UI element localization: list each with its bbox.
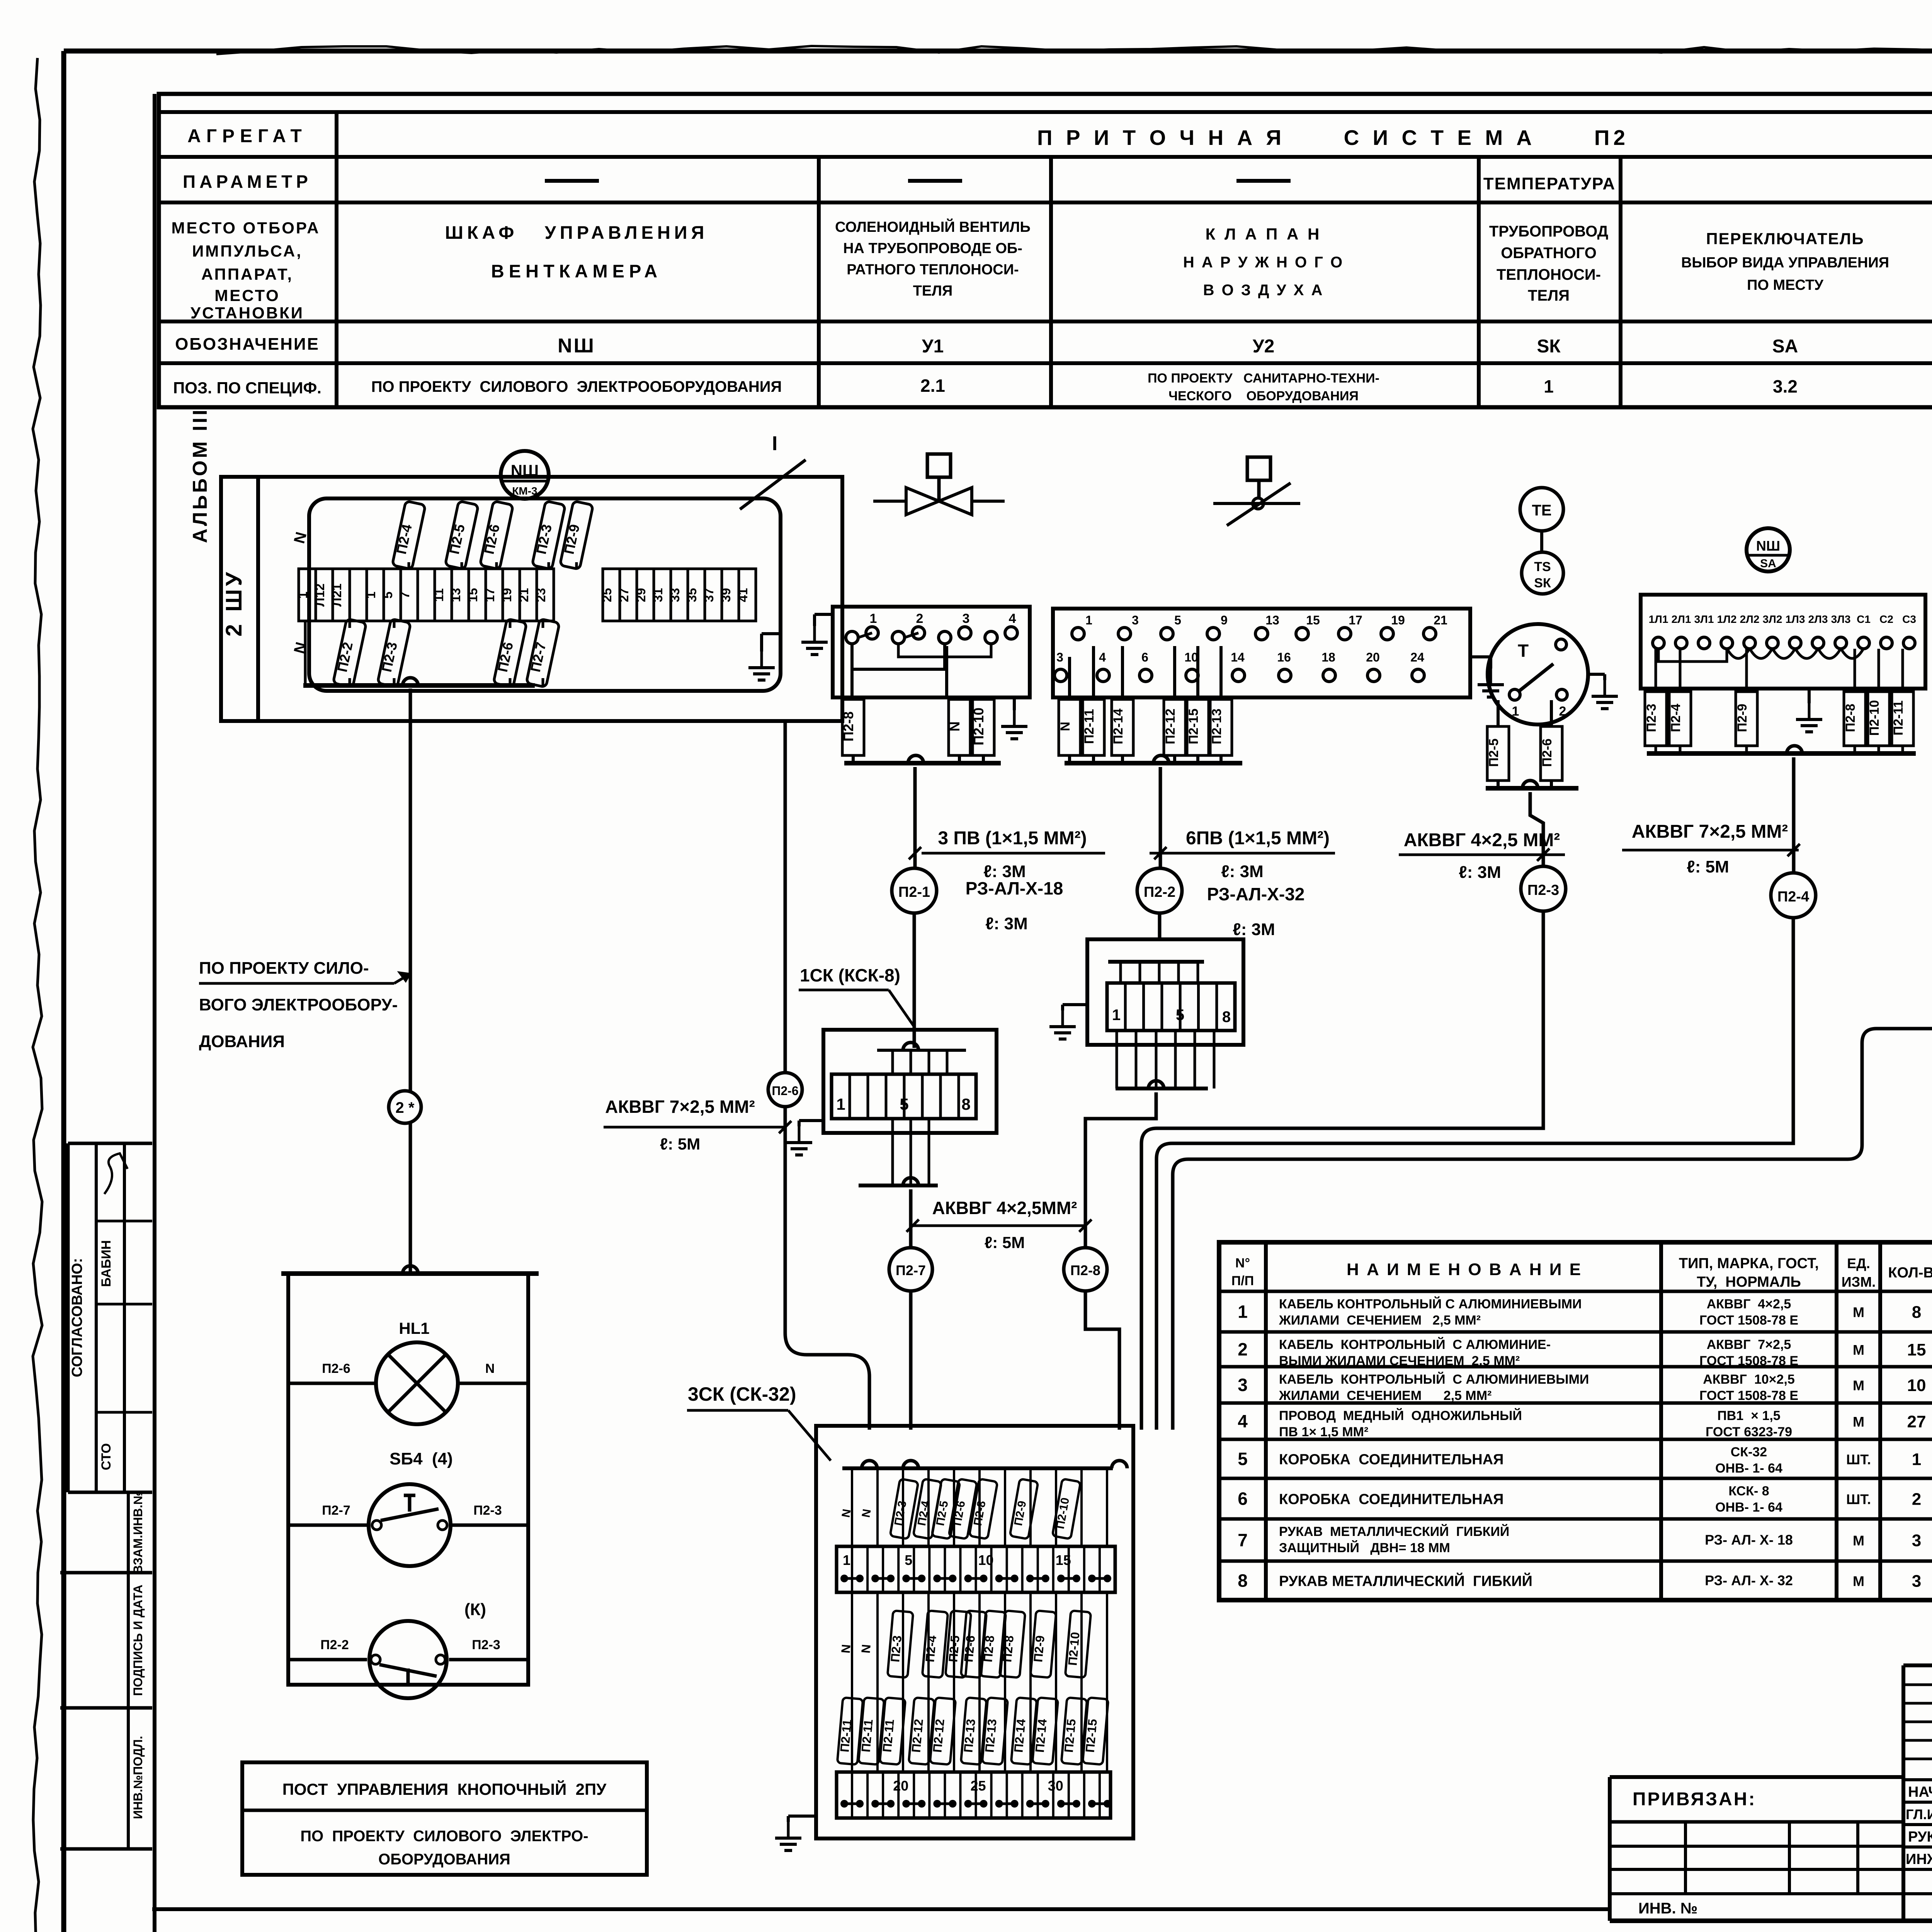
svg-text:ГОСТ 1508-78 Е: ГОСТ 1508-78 Е	[1699, 1388, 1798, 1403]
svg-text:18: 18	[1321, 650, 1335, 664]
svg-text:П2-15: П2-15	[1186, 709, 1201, 745]
table left header texts	[171, 126, 321, 397]
title block grid	[1610, 1665, 1932, 1932]
svg-text:15: 15	[1056, 1552, 1071, 1568]
svg-text:ПЕРЕКЛЮЧАТЕЛЬ: ПЕРЕКЛЮЧАТЕЛЬ	[1706, 230, 1864, 248]
svg-text:П2-13: П2-13	[1209, 709, 1224, 745]
sidebar soglasovano table	[68, 1143, 152, 1492]
svg-text:ОБОЗНАЧЕНИЕ: ОБОЗНАЧЕНИЕ	[175, 335, 320, 354]
solenoid valve symbol У1	[873, 454, 1005, 515]
svg-text:1: 1	[1085, 613, 1092, 627]
svg-text:6: 6	[1141, 650, 1148, 664]
svg-text:РЗ- АЛ- Х- 32: РЗ- АЛ- Х- 32	[1705, 1573, 1793, 1588]
svg-text:П2-2: П2-2	[1144, 884, 1175, 900]
label 1СК(КСК-8)	[799, 965, 915, 1028]
svg-text:ОНВ- 1- 64: ОНВ- 1- 64	[1715, 1500, 1782, 1515]
svg-text:РЗ- АЛ- Х- 18: РЗ- АЛ- Х- 18	[1705, 1532, 1793, 1548]
svg-text:3: 3	[1056, 650, 1063, 664]
svg-text:КОРОБКА СОЕДИНИТЕЛЬНАЯ: КОРОБКА СОЕДИНИТЕЛЬНАЯ	[1279, 1452, 1504, 1468]
air damper symbol У2	[1213, 457, 1300, 526]
svg-text:АГРЕГАТ: АГРЕГАТ	[187, 126, 307, 146]
svg-text:35: 35	[685, 588, 699, 602]
svg-text:39: 39	[719, 588, 733, 602]
svg-text:25: 25	[600, 588, 614, 602]
svg-text:5: 5	[900, 1095, 908, 1113]
svg-text:РЗ-АЛ-Х-32: РЗ-АЛ-Х-32	[1207, 884, 1305, 904]
svg-text:СОЛЕНОИДНЫЙ ВЕНТИЛЬ: СОЛЕНОИДНЫЙ ВЕНТИЛЬ	[835, 218, 1031, 235]
svg-text:ℓ: 5М: ℓ: 5М	[985, 1233, 1025, 1252]
signature rows	[1906, 1782, 1932, 1867]
svg-text:СК-32: СК-32	[1731, 1445, 1767, 1459]
svg-text:П2-3: П2-3	[1527, 882, 1559, 898]
svg-text:14: 14	[1231, 650, 1245, 664]
svg-text:15: 15	[1306, 613, 1320, 627]
wire 1СК to П2-7	[909, 1189, 913, 1430]
svg-text:П2-4: П2-4	[1777, 889, 1809, 905]
svg-text:1СК (КСК-8): 1СК (КСК-8)	[800, 965, 900, 985]
ground right of block	[1001, 697, 1027, 739]
svg-text:П2-11: П2-11	[880, 1719, 896, 1753]
svg-text:У2: У2	[1253, 336, 1275, 357]
svg-text:1Л2: 1Л2	[1717, 613, 1737, 625]
svg-text:ℓ: 3М: ℓ: 3М	[1233, 920, 1275, 939]
svg-text:ℓ: 5М: ℓ: 5М	[1687, 857, 1729, 876]
svg-text:ДОВАНИЯ: ДОВАНИЯ	[199, 1032, 285, 1051]
svg-text:П2-12: П2-12	[930, 1718, 947, 1753]
svg-text:КАБЕЛЬ КОНТРОЛЬНЫЙ С АЛЮМИНИЕВ: КАБЕЛЬ КОНТРОЛЬНЫЙ С АЛЮМИНИЕВЫМИ	[1279, 1296, 1582, 1311]
ground left of 2СК	[1049, 1005, 1087, 1039]
svg-text:ТРУБОПРОВОД: ТРУБОПРОВОД	[1489, 223, 1608, 240]
svg-text:27: 27	[617, 588, 631, 602]
parts list table	[1219, 1242, 1932, 1600]
terminal block for У2	[1053, 609, 1470, 697]
wire 2СК to П2-8	[1085, 1092, 1156, 1248]
svg-text:П2-8: П2-8	[1843, 704, 1858, 732]
svg-text:ТЕЛЯ: ТЕЛЯ	[913, 283, 953, 299]
svg-text:ТЕМПЕРАТУРА: ТЕМПЕРАТУРА	[1483, 174, 1616, 193]
svg-text:N°: N°	[1235, 1256, 1250, 1270]
ground in cabinet	[748, 634, 781, 680]
svg-text:3.2: 3.2	[1773, 376, 1798, 396]
wire П2-8 to 3СК	[1085, 1291, 1119, 1430]
svg-text:ТУ, НОРМАЛЬ: ТУ, НОРМАЛЬ	[1697, 1274, 1801, 1290]
svg-text:1: 1	[364, 592, 378, 599]
sidebar inv table	[60, 1491, 152, 1849]
svg-text:7: 7	[398, 592, 412, 599]
svg-text:М: М	[1853, 1573, 1864, 1589]
svg-text:ПО ПРОЕКТУ СИЛОВОГО ЭЛЕКТРО: ПО ПРОЕКТУ СИЛОВОГО ЭЛЕКТРО-	[300, 1828, 588, 1845]
cable marker П2-7	[889, 1248, 932, 1291]
svg-text:SБ4 (4): SБ4 (4)	[389, 1449, 453, 1468]
sensor TS SK	[1522, 531, 1563, 594]
svg-text:Н А Р У Ж Н О Г О: Н А Р У Ж Н О Г О	[1183, 254, 1344, 271]
parameter table grid	[159, 94, 1932, 407]
svg-text:15: 15	[1907, 1340, 1926, 1359]
svg-text:ℓ: 3М: ℓ: 3М	[1221, 862, 1264, 881]
svg-text:16: 16	[1277, 650, 1291, 664]
svg-text:7: 7	[1238, 1530, 1248, 1550]
svg-text:ℓ: 3М: ℓ: 3М	[985, 914, 1028, 933]
svg-text:ТS: ТS	[1534, 560, 1551, 574]
svg-text:ОБОРУДОВАНИЯ: ОБОРУДОВАНИЯ	[378, 1851, 510, 1868]
svg-text:ГОСТ 1508-78 Е: ГОСТ 1508-78 Е	[1699, 1313, 1798, 1328]
cable marker П2-2	[1137, 868, 1182, 913]
svg-text:ОБРАТНОГО: ОБРАТНОГО	[1501, 245, 1597, 262]
svg-text:ВОГО ЭЛЕКТРООБОРУ-: ВОГО ЭЛЕКТРООБОРУ-	[199, 995, 398, 1014]
svg-text:21: 21	[1434, 613, 1447, 627]
svg-text:1: 1	[1238, 1302, 1248, 1322]
svg-text:NШ: NШ	[511, 461, 539, 480]
svg-text:ШТ.: ШТ.	[1846, 1492, 1871, 1507]
button SB4	[288, 1449, 528, 1566]
svg-text:ГОСТ 6323-79: ГОСТ 6323-79	[1706, 1425, 1792, 1439]
svg-text:П2-12: П2-12	[909, 1718, 925, 1753]
block A bottom tags	[840, 699, 994, 755]
cable АКВВГ 4x2.5 (П2-3)	[1399, 830, 1565, 882]
note: po proektu silovogo	[199, 959, 410, 1051]
wire П2-5 to bundle	[1173, 969, 1932, 1430]
svg-text:10: 10	[1184, 650, 1198, 664]
svg-text:П Р И Т О Ч Н А Я С И С Т: П Р И Т О Ч Н А Я С И С Т Е М А П2	[1037, 126, 1629, 150]
svg-text:КАБЕЛЬ КОНТРОЛЬНЫЙ С АЛЮМИНИ: КАБЕЛЬ КОНТРОЛЬНЫЙ С АЛЮМИНИЕВЫМИ	[1279, 1372, 1589, 1387]
junction box 2СК	[1087, 939, 1243, 1088]
svg-text:П2-3: П2-3	[472, 1638, 500, 1652]
svg-text:НL1: НL1	[399, 1319, 429, 1337]
cable АКВВГ 7x2.5 label (П2-6)	[604, 1097, 785, 1153]
svg-text:П2-1: П2-1	[898, 884, 930, 900]
push-button station box	[281, 1266, 539, 1685]
button K	[288, 1600, 528, 1698]
svg-text:10: 10	[1907, 1376, 1926, 1395]
svg-text:АКВВГ 7×2,5: АКВВГ 7×2,5	[1707, 1337, 1791, 1352]
svg-text:ПО ПРОЕКТУ СИЛОВОГО ЭЛЕКТРОО: ПО ПРОЕКТУ СИЛОВОГО ЭЛЕКТРООБОРУДОВАНИЯ	[371, 378, 782, 395]
svg-text:N: N	[838, 1644, 853, 1654]
svg-text:П2-11: П2-11	[1891, 701, 1906, 736]
svg-text:ПВ 1× 1,5 ММ²: ПВ 1× 1,5 ММ²	[1279, 1425, 1368, 1439]
svg-text:СТО: СТО	[99, 1443, 114, 1470]
svg-text:М: М	[1853, 1304, 1864, 1320]
svg-text:ИНЖЕНЕР: ИНЖЕНЕР	[1906, 1851, 1932, 1867]
svg-text:ПО ПРОЕКТУ САНИТАРНО-ТЕХНИ-: ПО ПРОЕКТУ САНИТАРНО-ТЕХНИ-	[1148, 371, 1379, 386]
svg-text:ГЛ.ИНЖ.ОТ: ГЛ.ИНЖ.ОТ	[1906, 1806, 1932, 1822]
svg-text:9: 9	[1221, 613, 1228, 627]
svg-text:1: 1	[296, 592, 310, 599]
svg-text:ПАРАМЕТР: ПАРАМЕТР	[183, 172, 312, 192]
wire П2-1 branch	[913, 767, 917, 869]
svg-text:33: 33	[668, 588, 682, 602]
ground left of block	[801, 614, 833, 655]
svg-text:4: 4	[1099, 650, 1106, 664]
svg-text:21: 21	[517, 588, 531, 602]
svg-text:Т: Т	[1518, 641, 1529, 661]
svg-text:РУКАВ МЕТАЛЛИЧЕСКИЙ ГИБКИЙ: РУКАВ МЕТАЛЛИЧЕСКИЙ ГИБКИЙ	[1279, 1524, 1509, 1539]
svg-text:3: 3	[1912, 1572, 1921, 1591]
svg-text:НАЧ.ОТД: НАЧ.ОТД	[1908, 1784, 1932, 1800]
cable 3 ПВ	[922, 828, 1105, 881]
svg-text:ВЫМИ ЖИЛАМИ СЕЧЕНИЕМ 2,5 ММ²: ВЫМИ ЖИЛАМИ СЕЧЕНИЕМ 2,5 ММ²	[1279, 1354, 1520, 1368]
svg-text:П2-14: П2-14	[1011, 1718, 1028, 1753]
svg-text:13: 13	[1265, 613, 1279, 627]
caption box 2PU	[242, 1762, 647, 1875]
svg-text:3 ПВ (1×1,5 ММ²): 3 ПВ (1×1,5 ММ²)	[938, 828, 1087, 849]
svg-text:5: 5	[905, 1552, 912, 1568]
svg-text:КСК- 8: КСК- 8	[1728, 1484, 1769, 1498]
paper edge left	[33, 58, 42, 1932]
svg-text:1Л3: 1Л3	[1786, 613, 1805, 625]
svg-text:П2-10: П2-10	[1867, 700, 1882, 736]
drawing area left border	[153, 94, 156, 1932]
svg-text:ГОСТ 1508-78 Е: ГОСТ 1508-78 Е	[1699, 1354, 1798, 1368]
svg-text:П2-6: П2-6	[961, 1635, 978, 1663]
svg-text:(К): (К)	[464, 1600, 486, 1619]
svg-text:РУК. ГР.: РУК. ГР.	[1908, 1829, 1932, 1845]
svg-text:17: 17	[483, 588, 497, 602]
table row3: location descriptions	[445, 218, 1932, 304]
svg-text:1: 1	[843, 1552, 850, 1568]
svg-text:3Л1: 3Л1	[1694, 613, 1714, 625]
cabinet wire tags (bottom row)	[291, 619, 560, 687]
svg-text:П2-3: П2-3	[1644, 704, 1659, 732]
svg-text:5: 5	[1176, 1007, 1184, 1024]
svg-text:ОНВ- 1- 64: ОНВ- 1- 64	[1715, 1461, 1782, 1476]
svg-text:1: 1	[1112, 1007, 1121, 1024]
svg-text:Л21: Л21	[330, 583, 344, 607]
svg-text:5: 5	[1238, 1449, 1248, 1469]
label 3СК(СК-32)	[687, 1383, 831, 1461]
svg-text:25: 25	[970, 1778, 986, 1794]
svg-text:3: 3	[963, 611, 970, 626]
cabinet bottom bus	[303, 678, 535, 685]
wire П2-6 (cable АКВВГ7)	[785, 721, 869, 1430]
cable marker circle 2	[389, 1091, 421, 1123]
svg-text:С1: С1	[1857, 613, 1871, 625]
privyazan box	[1610, 1777, 1903, 1921]
svg-text:8: 8	[1912, 1303, 1921, 1322]
svg-text:П2-2: П2-2	[320, 1638, 349, 1652]
svg-text:NШ: NШ	[1756, 538, 1780, 554]
svg-text:8: 8	[1222, 1009, 1231, 1026]
svg-text:П2-3: П2-3	[473, 1503, 502, 1518]
wire П2-2 branch	[1159, 767, 1162, 869]
svg-text:РУКАВ МЕТАЛЛИЧЕСКИЙ ГИБКИЙ: РУКАВ МЕТАЛЛИЧЕСКИЙ ГИБКИЙ	[1279, 1572, 1532, 1590]
svg-text:2.1: 2.1	[920, 376, 945, 396]
svg-text:37: 37	[702, 588, 716, 602]
control cabinet 2ШУ	[221, 477, 842, 721]
cable 6ПВ	[1150, 828, 1335, 881]
svg-text:КАБЕЛЬ КОНТРОЛЬНЫЙ С АЛЮМИНИ: КАБЕЛЬ КОНТРОЛЬНЫЙ С АЛЮМИНИЕ-	[1279, 1337, 1551, 1352]
svg-text:ПОСТ УПРАВЛЕНИЯ КНОПОЧНЫЙ 2: ПОСТ УПРАВЛЕНИЯ КНОПОЧНЫЙ 2ПУ	[282, 1780, 607, 1798]
svg-text:6: 6	[1238, 1489, 1248, 1509]
cable marker П2-8	[1064, 1248, 1107, 1291]
svg-text:ЖИЛАМИ СЕЧЕНИЕМ 2,5 ММ²: ЖИЛАМИ СЕЧЕНИЕМ 2,5 ММ²	[1279, 1388, 1492, 1403]
svg-text:SК: SК	[1537, 336, 1561, 357]
svg-text:ЗАЩИТНЫЙ ДВН= 18 ММ: ЗАЩИТНЫЙ ДВН= 18 ММ	[1279, 1540, 1450, 1555]
svg-text:4: 4	[1238, 1411, 1248, 1431]
label R3-AL-X-32	[1207, 884, 1305, 939]
cable marker П2-3	[1521, 866, 1566, 911]
svg-text:НА ТРУБОПРОВОДЕ ОБ-: НА ТРУБОПРОВОДЕ ОБ-	[843, 240, 1022, 257]
svg-text:АКВВГ 4×2,5ММ²: АКВВГ 4×2,5ММ²	[932, 1198, 1077, 1218]
svg-text:П2-6: П2-6	[322, 1361, 350, 1376]
svg-text:N: N	[859, 1644, 873, 1654]
svg-text:ИНВ.№ПОДЛ.: ИНВ.№ПОДЛ.	[131, 1736, 145, 1819]
svg-text:1: 1	[1512, 704, 1519, 719]
svg-text:N: N	[1058, 722, 1073, 731]
svg-text:3: 3	[1238, 1375, 1248, 1395]
cabinet wire tags (top row)	[291, 501, 593, 569]
svg-text:ЕД.: ЕД.	[1847, 1255, 1870, 1271]
svg-text:П2-11: П2-11	[859, 1719, 875, 1753]
svg-text:29: 29	[634, 588, 648, 602]
svg-text:ШТ.: ШТ.	[1846, 1452, 1871, 1468]
svg-text:П2-4: П2-4	[1668, 704, 1683, 732]
svg-text:СОГЛАСОВАНО:: СОГЛАСОВАНО:	[69, 1258, 85, 1378]
svg-text:41: 41	[736, 588, 750, 602]
svg-text:ℓ: 5М: ℓ: 5М	[660, 1135, 701, 1153]
svg-text:АКВВГ 10×2,5: АКВВГ 10×2,5	[1703, 1372, 1795, 1387]
svg-text:31: 31	[651, 588, 665, 602]
svg-text:1Л1: 1Л1	[1649, 613, 1668, 625]
svg-text:П2-3: П2-3	[888, 1635, 904, 1663]
svg-text:М: М	[1853, 1414, 1864, 1430]
svg-text:19: 19	[500, 588, 514, 602]
svg-text:П2-6: П2-6	[772, 1084, 798, 1098]
table row4: designations	[558, 331, 1932, 367]
svg-text:2: 2	[916, 611, 923, 626]
svg-text:ПРИВЯЗАН:: ПРИВЯЗАН:	[1633, 1789, 1756, 1810]
svg-text:П2-8: П2-8	[981, 1635, 997, 1663]
svg-text:В О З Д У Х А: В О З Д У Х А	[1203, 282, 1324, 299]
SA bottom tags	[1644, 649, 1916, 753]
svg-text:SА: SА	[1772, 336, 1798, 357]
svg-text:АЛЬБОМ III: АЛЬБОМ III	[189, 408, 211, 543]
svg-text:КОРОБКА СОЕДИНИТЕЛЬНАЯ: КОРОБКА СОЕДИНИТЕЛЬНАЯ	[1279, 1492, 1504, 1508]
svg-text:23: 23	[534, 588, 548, 602]
junction box 1СК	[823, 1030, 997, 1185]
wire cabinet to button station	[409, 689, 412, 1271]
svg-text:П2-11: П2-11	[837, 1719, 854, 1753]
svg-text:АКВВГ 4×2,5 ММ²: АКВВГ 4×2,5 ММ²	[1404, 830, 1560, 850]
svg-text:КОЛ-ВО: КОЛ-ВО	[1888, 1265, 1932, 1281]
svg-text:П2-7: П2-7	[896, 1262, 926, 1278]
underline tick marks	[779, 844, 1932, 1232]
svg-text:П2-4: П2-4	[923, 1635, 939, 1663]
svg-text:2: 2	[1559, 704, 1566, 719]
wire П2-1 into 1СК	[913, 913, 916, 1048]
svg-text:ТЕПЛОНОСИ-: ТЕПЛОНОСИ-	[1497, 266, 1601, 283]
svg-text:3: 3	[1912, 1531, 1921, 1550]
svg-text:П2-15: П2-15	[1083, 1718, 1099, 1753]
svg-text:П2-8: П2-8	[1000, 1635, 1016, 1663]
svg-text:П2-12: П2-12	[1163, 709, 1178, 745]
svg-text:3Л3: 3Л3	[1831, 613, 1851, 625]
svg-text:N: N	[485, 1361, 495, 1376]
svg-text:БАБИН: БАБИН	[99, 1240, 114, 1287]
svg-text:ТЕЛЯ: ТЕЛЯ	[1528, 287, 1570, 304]
svg-text:ИНВ. №: ИНВ. №	[1638, 1900, 1697, 1917]
svg-text:1: 1	[1912, 1450, 1921, 1469]
svg-text:АКВВГ 7×2,5 ММ²: АКВВГ 7×2,5 ММ²	[605, 1097, 755, 1117]
svg-text:РАТНОГО ТЕПЛОНОСИ-: РАТНОГО ТЕПЛОНОСИ-	[847, 262, 1019, 278]
sensor TE	[1520, 488, 1563, 531]
cable АКВВГ 7x2.5 (П2-4)	[1622, 821, 1799, 876]
svg-text:8: 8	[961, 1095, 970, 1113]
svg-text:ПО МЕСТУ: ПО МЕСТУ	[1747, 277, 1823, 293]
svg-text:20: 20	[893, 1778, 908, 1794]
ground under SA	[1796, 689, 1822, 732]
svg-text:3: 3	[1132, 613, 1139, 627]
cable marker П2-6	[768, 1073, 802, 1107]
svg-text:10: 10	[978, 1552, 994, 1568]
svg-text:1: 1	[836, 1095, 845, 1113]
wire П2-4 to box 3СК	[1156, 918, 1793, 1430]
svg-text:П2-6: П2-6	[1540, 738, 1554, 767]
svg-text:ТЕ: ТЕ	[1532, 502, 1551, 519]
svg-text:ВЗАМ.ИНВ.№: ВЗАМ.ИНВ.№	[131, 1491, 145, 1574]
svg-text:ЧЕСКОГО ОБОРУДОВАНИЯ: ЧЕСКОГО ОБОРУДОВАНИЯ	[1168, 389, 1359, 403]
terminal strip XT in 2ШУ	[296, 569, 756, 621]
svg-text:АППАРАТ,: АППАРАТ,	[201, 265, 293, 283]
ground right of block B	[1470, 657, 1504, 697]
wire П2-2 into 2СК	[1158, 913, 1162, 939]
svg-text:Л12: Л12	[313, 583, 327, 607]
svg-text:2Л2: 2Л2	[1740, 613, 1760, 625]
svg-text:SА: SА	[1760, 557, 1776, 570]
svg-text:П2-8: П2-8	[1070, 1262, 1100, 1278]
svg-text:П2-9: П2-9	[1735, 704, 1750, 732]
wire П2-3 to box 3СК	[1141, 911, 1543, 1430]
svg-text:П2-15: П2-15	[1061, 1718, 1078, 1753]
svg-text:ПРОВОД МЕДНЫЙ ОДНОЖИЛЬНЫЙ: ПРОВОД МЕДНЫЙ ОДНОЖИЛЬНЫЙ	[1279, 1408, 1522, 1423]
T bottom tags	[1486, 700, 1578, 788]
lamp HL1	[288, 1319, 528, 1424]
table row2: parameter dashes	[545, 173, 1932, 194]
svg-text:NШ: NШ	[558, 335, 595, 357]
cable marker П2-4	[1771, 873, 1816, 918]
svg-text:П2-14: П2-14	[1111, 709, 1126, 745]
svg-text:5: 5	[1174, 613, 1181, 627]
label R3-AL-X-18	[966, 878, 1063, 933]
svg-text:17: 17	[1349, 613, 1362, 627]
cabinet strip wire stubs	[305, 562, 577, 685]
svg-text:3Л2: 3Л2	[1763, 613, 1782, 625]
svg-text:С2: С2	[1879, 613, 1893, 625]
svg-text:1: 1	[1544, 376, 1554, 396]
svg-text:М: М	[1853, 1533, 1864, 1549]
svg-text:13: 13	[449, 588, 463, 602]
svg-text:19: 19	[1391, 613, 1405, 627]
svg-text:ПОДПИСЬ И ДАТА: ПОДПИСЬ И ДАТА	[131, 1585, 145, 1696]
device circle NШ SA	[1747, 528, 1790, 571]
svg-text:15: 15	[466, 588, 480, 602]
svg-text:4: 4	[1009, 611, 1016, 626]
ground at 3СК	[775, 1816, 816, 1850]
svg-text:П2-7: П2-7	[322, 1503, 350, 1518]
svg-text:РЗ-АЛ-Х-18: РЗ-АЛ-Х-18	[966, 878, 1063, 898]
svg-text:П/П: П/П	[1231, 1274, 1254, 1288]
svg-text:МЕСТО ОТБОРА: МЕСТО ОТБОРА	[171, 219, 320, 237]
selector switch terminal block SA	[1641, 595, 1925, 689]
svg-text:П2-5: П2-5	[1486, 738, 1501, 767]
svg-text:П2-10: П2-10	[1065, 1631, 1082, 1666]
svg-text:2 ШУ: 2 ШУ	[221, 569, 247, 637]
svg-text:27: 27	[1907, 1412, 1926, 1431]
svg-text:М: М	[1853, 1342, 1864, 1358]
svg-text:6ПВ (1×1,5 ММ²): 6ПВ (1×1,5 ММ²)	[1186, 828, 1330, 849]
svg-text:2Л3: 2Л3	[1808, 613, 1828, 625]
node I leader	[740, 432, 806, 509]
svg-text:П2-11: П2-11	[1082, 709, 1097, 744]
